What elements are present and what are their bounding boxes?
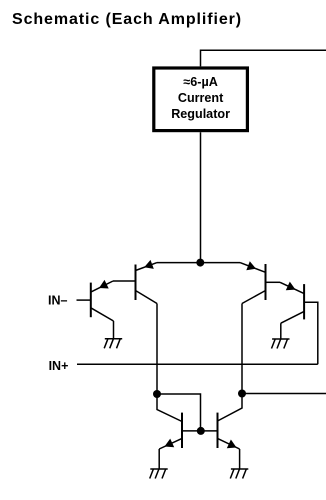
node Q3 collector junction: [238, 390, 246, 398]
svg-text:Current: Current: [178, 91, 224, 105]
svg-text:Regulator: Regulator: [171, 107, 230, 121]
transistor Q1: [91, 280, 114, 321]
wire Q4 collector to ground: [280, 323, 282, 339]
wire Q2 collector down: [156, 304, 158, 395]
ground (Q1 collector): [104, 339, 122, 349]
wire Q6 emitter to ground: [239, 449, 241, 469]
wire right tail rail: [200, 262, 240, 264]
svg-text:Schematic (Each Amplifier): Schematic (Each Amplifier): [12, 11, 242, 28]
wire Q1 collector to ground: [113, 321, 115, 339]
svg-text:≈6-µA: ≈6-µA: [183, 75, 217, 89]
current regulator box U1: [154, 68, 248, 131]
wire left tail rail: [157, 262, 200, 264]
wire Q3 collector down: [241, 304, 243, 394]
node Q2 collector junction: [153, 390, 161, 398]
ground (Q4 collector): [272, 339, 290, 349]
wire Q3 base to Q4 emitter: [266, 281, 281, 283]
transistor Q6: [201, 413, 240, 449]
ground (Q6 emitter): [230, 469, 248, 479]
wire positive supply rail: [201, 50, 326, 66]
wire IN+: [77, 363, 318, 365]
wire Q5 emitter to ground: [158, 449, 160, 469]
node tail junction: [196, 259, 204, 267]
ground (Q5 emitter): [150, 469, 168, 479]
wire IN- to Q1 base: [77, 299, 91, 301]
wire Q4 base to IN+: [304, 302, 318, 364]
transistor Q2: [136, 260, 158, 304]
wire mirror diode connection: [157, 394, 201, 431]
wire Q2 base to Q1 emitter: [113, 280, 136, 282]
wire Q5 collector: [157, 394, 182, 422]
node mirror base junction: [197, 427, 205, 435]
transistor Q3: [240, 261, 266, 303]
svg-text:IN–: IN–: [48, 294, 68, 308]
transistor Q5: [159, 413, 201, 449]
svg-text:IN+: IN+: [49, 359, 69, 373]
transistor Q4: [280, 282, 304, 324]
wire Q6 collector: [218, 394, 243, 422]
current regulator value label: [171, 75, 230, 121]
wire output to next stage: [242, 393, 326, 395]
wire current regulator output: [200, 132, 202, 262]
